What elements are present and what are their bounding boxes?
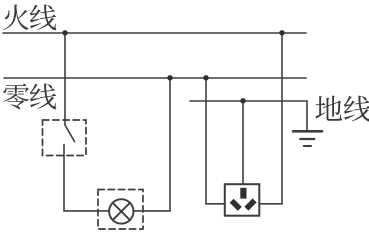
switch S1 lever (open) — [65, 125, 75, 142]
wire: live (火线) bus, y=33 — [3, 32, 306, 34]
junction dot: earth branch / socket earth pin — [240, 98, 245, 103]
wire: lamp EL to neutral bus, x=170 — [134, 78, 171, 211]
socket XS earth slot — [240, 188, 246, 199]
junction dot: neutral bus / socket branch — [203, 75, 208, 80]
node label 火线 (live wire) — [3, 5, 56, 31]
node label 零线 (neutral wire) — [3, 84, 56, 110]
junction dot: neutral bus / lamp branch — [167, 75, 172, 80]
wire: neutral bus to socket XS left pin, x=206 — [206, 78, 224, 204]
lamp EL dashed enclosure — [98, 190, 143, 230]
junction dot: live bus / socket branch — [279, 30, 284, 35]
wire: earth branch to socket XS earth pin, x=243 — [242, 101, 244, 184]
lamp EL circle — [109, 199, 133, 223]
ground symbol bar 2 — [300, 138, 314, 140]
ground symbol bar 1 — [293, 130, 322, 133]
socket XS outline (three-hole socket) — [225, 184, 259, 216]
wire: earth (地线) branch, y=101 — [190, 101, 307, 131]
lamp EL cross stroke 1 — [113, 203, 130, 220]
switch S1 dashed enclosure — [43, 120, 87, 156]
socket XS live slot (right, slanted) — [244, 198, 256, 210]
socket XS neutral slot (left, slanted) — [230, 199, 242, 211]
wire: live bus to socket XS right pin, x=282 — [260, 33, 283, 204]
ground symbol bar 3 — [304, 145, 311, 147]
wire: live bus to switch S1, x=65 — [64, 33, 66, 125]
wire: neutral (零线) bus, y=78 — [4, 77, 306, 79]
wire: switch S1 to lamp EL — [64, 145, 109, 211]
node label 地线 (earth wire) — [315, 96, 369, 122]
junction dot: live bus / switch branch — [62, 30, 67, 35]
